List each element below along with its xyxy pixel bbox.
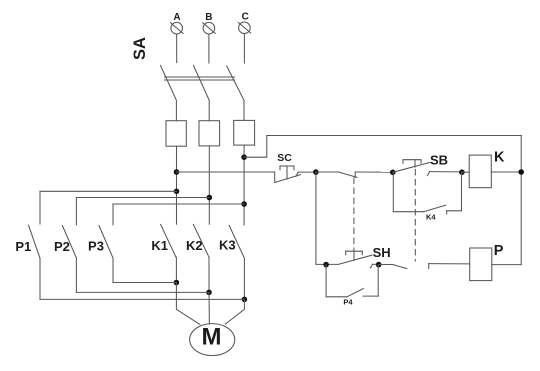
contact P1 — [15, 191, 40, 299]
node rail3 — [241, 201, 247, 207]
contact SB-linked row2 — [379, 264, 470, 269]
coil P — [470, 243, 522, 281]
contact K4 — [393, 205, 461, 222]
wire rail A — [113, 282, 176, 284]
node after SH — [376, 262, 382, 268]
wire terminal A to switch — [176, 34, 178, 63]
svg-text:P1: P1 — [15, 239, 31, 254]
wire rail C — [40, 298, 244, 300]
node rail1 — [174, 189, 180, 195]
wire control top — [267, 135, 521, 137]
terminal C — [238, 11, 251, 33]
wire rail3 — [113, 203, 244, 205]
svg-text:K: K — [494, 150, 505, 166]
terminal B — [203, 12, 216, 34]
wire phase 1 — [176, 146, 178, 224]
node after SB — [459, 169, 465, 175]
switch SA — [131, 37, 244, 121]
wire rail1 — [40, 190, 177, 192]
node rail B — [206, 290, 212, 296]
coil K — [462, 150, 521, 188]
contact K2 — [186, 224, 209, 292]
svg-text:P: P — [494, 243, 504, 259]
wire to K4 left — [392, 172, 394, 211]
node K output — [518, 169, 524, 175]
node rail C — [242, 297, 248, 303]
wire row1 to SC — [177, 171, 275, 173]
svg-text:P3: P3 — [88, 239, 104, 254]
node phase 3 tap — [241, 154, 247, 160]
node before SB — [390, 170, 396, 176]
fuse 3 — [234, 120, 255, 145]
svg-text:SA: SA — [131, 37, 149, 60]
wire row2 left riser — [316, 172, 338, 264]
svg-text:K1: K1 — [151, 238, 168, 253]
pushbutton SC — [275, 152, 316, 182]
contact P4 — [326, 265, 378, 307]
node rail A — [174, 280, 180, 286]
svg-text:K4: K4 — [426, 213, 436, 222]
svg-text:SB: SB — [430, 153, 448, 168]
contact P3 — [88, 204, 113, 283]
wire motor lead 3 — [225, 299, 244, 324]
wire control right edge — [520, 136, 522, 265]
wire phase 3 — [243, 145, 245, 225]
fuse 1 — [166, 121, 186, 147]
dashed link SB — [414, 170, 416, 262]
motor M — [190, 323, 235, 355]
terminal A — [171, 12, 184, 34]
dashed link SH — [353, 178, 355, 251]
svg-text:C: C — [242, 11, 249, 22]
wire control tap — [244, 136, 267, 158]
svg-text:P4: P4 — [343, 297, 353, 306]
wire motor lead 1 — [176, 283, 200, 325]
node after SC — [313, 169, 319, 175]
contact K1 — [151, 224, 176, 282]
svg-text:SC: SC — [277, 152, 292, 164]
wire terminal B to switch — [208, 34, 210, 63]
svg-text:SH: SH — [373, 245, 391, 260]
pushbutton SB — [393, 153, 462, 176]
fuse 2 — [199, 121, 220, 146]
pushbutton SH — [338, 245, 390, 268]
node row1 left — [174, 169, 180, 175]
node rail2 — [207, 195, 213, 201]
svg-text:M: M — [202, 323, 222, 350]
svg-text:B: B — [205, 12, 212, 23]
node row2 P4 left — [323, 262, 329, 268]
contact K3 — [219, 226, 244, 300]
wire to K4 right — [461, 172, 463, 211]
wire terminal C to switch — [243, 34, 245, 63]
svg-text:K2: K2 — [186, 238, 203, 253]
wire motor lead 2 — [208, 292, 210, 323]
svg-text:A: A — [173, 12, 180, 23]
svg-text:P2: P2 — [54, 239, 70, 254]
wire rail2 — [76, 197, 209, 199]
wire rail B — [76, 291, 209, 293]
contact P2 — [54, 198, 76, 293]
wire phase 2 — [208, 146, 210, 224]
contact SH-linked row1 — [316, 172, 393, 177]
svg-text:K3: K3 — [219, 237, 236, 252]
